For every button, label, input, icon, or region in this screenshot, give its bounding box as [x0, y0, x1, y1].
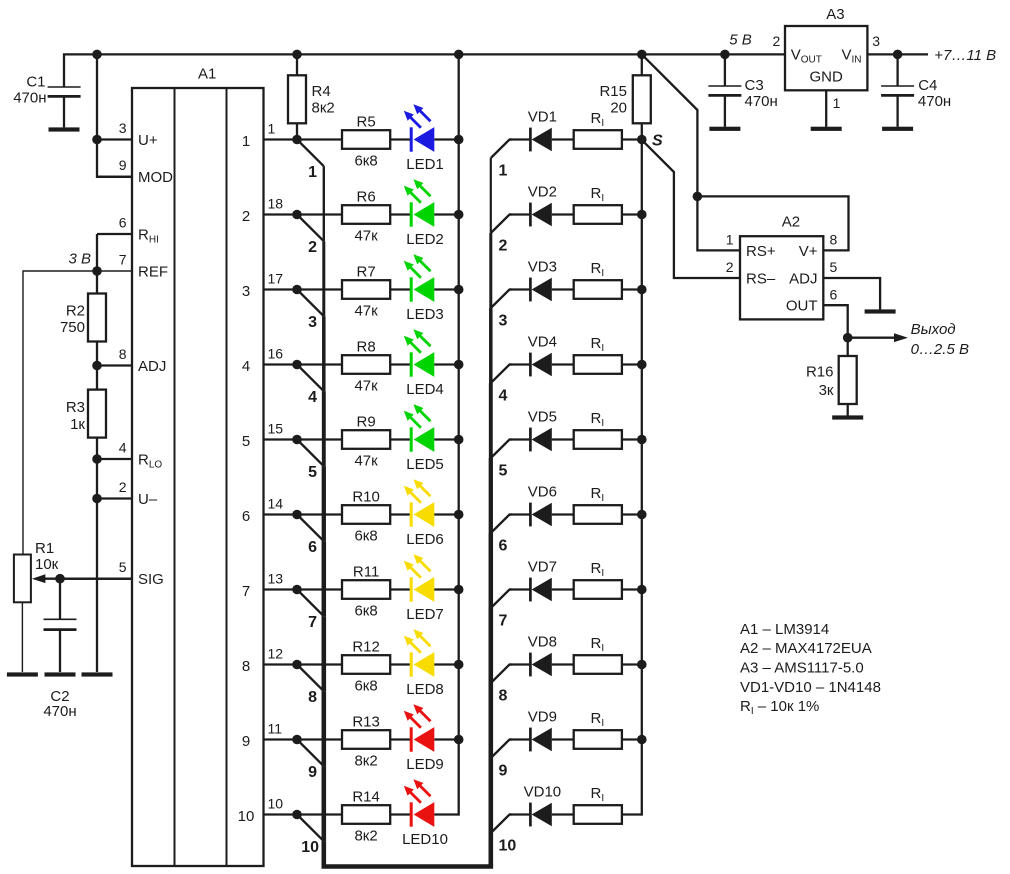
LED LED7 [404, 554, 444, 623]
capacitor C4 470н [881, 54, 951, 126]
wire A1 output pin 13 (comparator 7) to R11 [242, 571, 342, 600]
A1 pin 2 U– wire and labels [97, 479, 158, 508]
svg-text:2: 2 [726, 259, 734, 275]
wire diagonal loom to VD9 [491, 740, 512, 759]
LED LED8 [404, 629, 444, 698]
IC A1 LM3914 box [132, 65, 264, 866]
ground below U- net [82, 672, 113, 676]
svg-text:10: 10 [301, 839, 319, 856]
node top rail / LED bus [454, 50, 464, 60]
svg-text:6: 6 [830, 286, 838, 302]
node output 8 junction [292, 660, 302, 670]
ground below C4 [882, 127, 913, 131]
capacitor C3 470н [708, 54, 777, 126]
resistor R3 1к [66, 366, 106, 438]
LED LED1 [404, 104, 444, 173]
node ADJ junction [92, 361, 102, 371]
resistor R10 6к8 [342, 489, 390, 545]
svg-text:LED7: LED7 [406, 606, 444, 623]
svg-text:1к: 1к [70, 416, 85, 433]
wire diagonal loom to VD5 [491, 440, 512, 459]
svg-text:R13: R13 [352, 714, 380, 731]
svg-text:6: 6 [119, 214, 127, 230]
node summing bus row 6 [637, 510, 647, 520]
svg-text:REF: REF [138, 263, 168, 280]
svg-text:ADJ: ADJ [789, 270, 817, 287]
parts list text block [740, 621, 881, 717]
wire RHI down to REF node [96, 234, 98, 271]
wire LED9 to LED bus [434, 738, 458, 740]
node summing bus row 5 [637, 435, 647, 445]
node top rail / R4 [292, 50, 302, 60]
node output 3 junction [292, 285, 302, 295]
wire diagonal output 7 into left loom [297, 590, 324, 617]
resistor R11 6к8 [342, 564, 390, 620]
node LED bus row 6 [454, 510, 464, 520]
diode VD10 1N4148 [510, 783, 575, 826]
svg-text:3: 3 [308, 314, 317, 331]
wire top rail right of A3 to supply input [867, 53, 928, 55]
diode VD4 1N4148 [510, 333, 575, 376]
svg-text:47к: 47к [354, 227, 378, 244]
svg-text:7: 7 [242, 583, 250, 600]
svg-text:R2: R2 [66, 302, 85, 319]
svg-text:4: 4 [242, 358, 250, 375]
svg-text:R1: R1 [35, 540, 54, 557]
wire R13 to LED9 [390, 738, 411, 740]
resistor R9 47к [342, 414, 390, 470]
svg-text:8: 8 [499, 688, 508, 705]
wire A2 ADJ pin 5 to ground [823, 278, 880, 310]
diode VD6 1N4148 [510, 483, 575, 526]
resistor R6 47к [342, 189, 390, 245]
svg-text:8: 8 [830, 232, 838, 248]
svg-text:VD1-VD10 – 1N4148: VD1-VD10 – 1N4148 [740, 679, 881, 696]
svg-text:3к: 3к [819, 382, 834, 399]
wire LED10 to LED bus [434, 813, 458, 815]
svg-text:0…2.5 В: 0…2.5 В [911, 341, 969, 358]
A1 pin 8 ADJ wire and labels [97, 346, 166, 375]
node output 9 junction [292, 735, 302, 745]
svg-text:9: 9 [499, 763, 508, 780]
resistor R12 6к8 [342, 639, 390, 695]
arrow output Выход [848, 333, 908, 342]
svg-text:3 В: 3 В [68, 250, 91, 267]
wire RI row 10 to summing bus [622, 813, 642, 815]
svg-text:C4: C4 [918, 77, 937, 94]
wire R9 to LED5 [390, 438, 411, 440]
node top rail / U+ branch [92, 50, 102, 60]
wire SIG from wiper [60, 578, 132, 580]
svg-text:C1: C1 [26, 73, 45, 90]
svg-text:+7…11 В: +7…11 В [934, 47, 996, 64]
node RS+/V+ branch [693, 192, 703, 202]
svg-text:7: 7 [308, 614, 317, 631]
svg-text:VD4: VD4 [528, 333, 557, 350]
resistor R8 47к [342, 339, 390, 395]
LED LED10 [402, 779, 448, 848]
wire LED7 to LED bus [434, 588, 458, 590]
wire diagonal loom to VD4 [491, 365, 512, 384]
svg-text:10: 10 [268, 796, 284, 812]
svg-text:47к: 47к [354, 452, 378, 469]
wire diagonal loom to VD7 [491, 590, 512, 609]
svg-text:9: 9 [119, 157, 127, 173]
wire left loom vertical (bundled outputs) [323, 166, 325, 866]
node LED bus row 1 [454, 135, 464, 145]
wire diagonal output 10 into left loom [297, 815, 324, 842]
node output 1 junction [292, 135, 302, 145]
node S [637, 135, 647, 145]
node summing bus row 8 [637, 660, 647, 670]
svg-text:R9: R9 [357, 414, 376, 431]
resistor R14 8к2 [342, 789, 390, 845]
svg-text:10к: 10к [35, 556, 59, 573]
wire diagonal output 9 into left loom [297, 740, 324, 767]
node output 4 junction [292, 360, 302, 370]
svg-text:C3: C3 [745, 77, 764, 94]
LED LED6 [404, 479, 444, 548]
wire loom bottom horizontal [322, 864, 494, 869]
svg-text:10: 10 [238, 808, 255, 825]
diode VD9 1N4148 [510, 708, 575, 751]
wire R2 to ADJ [96, 342, 98, 366]
wire RI row 4 to summing bus [622, 363, 642, 365]
diode VD3 1N4148 [510, 258, 575, 301]
svg-text:12: 12 [268, 646, 284, 662]
diode VD2 1N4148 [510, 183, 575, 226]
wire A1 output pin 14 (comparator 6) to R10 [242, 496, 342, 525]
node U+ pin junction [92, 135, 102, 145]
node top rail / C3 and A3 VOUT [720, 50, 730, 60]
resistor RI (row 8) 10к [574, 635, 622, 674]
resistor R13 8к2 [342, 714, 390, 770]
wire diagonal output 2 into left loom [297, 215, 324, 242]
wire diagonal loom to VD1 [491, 140, 512, 159]
svg-text:R3: R3 [66, 399, 85, 416]
wire R11 to LED7 [390, 588, 411, 590]
resistor RI (row 5) 10к [574, 410, 622, 449]
IC A2 MAX4172EUA box [726, 213, 838, 319]
ground below C2 [45, 672, 76, 676]
A1 pin 9 MOD wire and labels [97, 157, 173, 186]
svg-text:2: 2 [242, 208, 250, 225]
svg-text:20: 20 [610, 100, 627, 117]
wire LED anode bus vertical [458, 54, 460, 815]
capacitor C2 470н [43, 579, 76, 720]
wire A1 output pin 17 (comparator 3) to R7 [242, 271, 342, 300]
wire A1 output pin 11 (comparator 9) to R13 [242, 721, 342, 750]
wire LED3 to LED bus [434, 288, 458, 290]
LED LED5 [404, 404, 444, 473]
diode VD8 1N4148 [510, 633, 575, 676]
svg-text:6к8: 6к8 [354, 602, 377, 619]
wire LED5 to LED bus [434, 438, 458, 440]
node summing bus row 7 [637, 585, 647, 595]
svg-text:LED6: LED6 [406, 531, 444, 548]
svg-text:VD3: VD3 [528, 258, 557, 275]
svg-text:V+: V+ [799, 243, 818, 260]
wire RI row 3 to summing bus [622, 288, 642, 290]
resistor RI (row 4) 10к [574, 335, 622, 374]
svg-text:U–: U– [138, 491, 158, 508]
wire diagonal output 5 into left loom [297, 440, 324, 467]
svg-text:A1: A1 [198, 65, 216, 82]
svg-text:11: 11 [268, 721, 283, 737]
potentiometer R1 10к [14, 540, 60, 672]
svg-text:470н: 470н [43, 703, 76, 720]
svg-text:R14: R14 [352, 789, 380, 806]
svg-text:S: S [652, 133, 663, 150]
wire diagonal output 4 into left loom [297, 365, 324, 392]
svg-text:5: 5 [119, 559, 127, 575]
svg-text:47к: 47к [354, 377, 378, 394]
wire diagonal loom to VD8 [491, 665, 512, 684]
svg-text:5 В: 5 В [729, 31, 752, 48]
wire R8 to LED4 [390, 363, 411, 365]
node top rail / C4 and A3 VIN [893, 50, 903, 60]
svg-text:4: 4 [119, 439, 127, 455]
svg-text:14: 14 [268, 496, 284, 512]
node U- junction [92, 494, 102, 504]
wire LED2 to LED bus [434, 213, 458, 215]
wire RI row 2 to summing bus [622, 213, 642, 215]
node RLO junction [92, 454, 102, 464]
svg-text:A1 – LM3914: A1 – LM3914 [740, 621, 829, 638]
ground below C3 [709, 127, 740, 131]
svg-text:U+: U+ [138, 132, 158, 149]
wire branch to A2 pin 1 RS+ [697, 196, 740, 250]
node REF junction [92, 266, 102, 276]
svg-text:4: 4 [499, 388, 508, 405]
svg-text:VD7: VD7 [528, 558, 557, 575]
resistor R4 8к2 [288, 54, 335, 139]
svg-text:ADJ: ADJ [138, 358, 166, 375]
svg-text:17: 17 [268, 271, 284, 287]
node summing bus row 3 [637, 285, 647, 295]
wire R14 to LED10 [390, 813, 411, 815]
svg-text:VD2: VD2 [528, 183, 557, 200]
svg-text:LED5: LED5 [406, 456, 444, 473]
resistor RI (row 2) 10к [574, 185, 622, 224]
wire S node to A2 pin 2 RS- (diagonal) [642, 140, 740, 278]
svg-text:9: 9 [308, 764, 317, 781]
node LED bus row 9 [454, 735, 464, 745]
svg-text:1: 1 [268, 121, 276, 137]
wire U+/MOD branch from rail [97, 54, 132, 176]
svg-text:1: 1 [833, 95, 841, 111]
svg-text:R15: R15 [599, 83, 627, 100]
wire branch to A2 pin 8 V+ [697, 196, 848, 250]
node LED bus row 4 [454, 360, 464, 370]
ground below R1 [7, 672, 38, 676]
svg-text:470н: 470н [745, 93, 778, 110]
resistor RI (row 6) 10к [574, 485, 622, 524]
wire diagonal loom to VD3 [491, 290, 512, 309]
svg-text:8к2: 8к2 [354, 752, 377, 769]
wire RI row 5 to summing bus [622, 438, 642, 440]
svg-text:SIG: SIG [138, 571, 164, 588]
svg-text:8: 8 [242, 658, 250, 675]
svg-text:RS+: RS+ [746, 243, 776, 260]
wire A2 OUT pin 6 to R16 [823, 305, 847, 356]
svg-text:LED8: LED8 [406, 681, 444, 698]
svg-text:R16: R16 [806, 363, 834, 380]
svg-text:LED3: LED3 [406, 306, 444, 323]
LED LED4 [404, 329, 444, 398]
svg-text:15: 15 [268, 421, 284, 437]
svg-text:VD9: VD9 [528, 708, 557, 725]
svg-text:3: 3 [872, 33, 880, 49]
svg-text:8к2: 8к2 [354, 827, 377, 844]
node output 2 junction [292, 210, 302, 220]
LED LED3 [404, 254, 444, 323]
svg-text:R12: R12 [352, 639, 380, 656]
node LED bus row 8 [454, 660, 464, 670]
wire summing bus S vertical [641, 140, 643, 816]
svg-text:R11: R11 [353, 564, 379, 581]
node LED bus row 3 [454, 285, 464, 295]
svg-text:R10: R10 [352, 489, 380, 506]
node LED bus row 2 [454, 210, 464, 220]
resistor R15 20 [599, 54, 650, 139]
node summing bus row 4 [637, 360, 647, 370]
A1 pin 3 U+ wire and labels [97, 120, 158, 149]
svg-text:5: 5 [499, 463, 508, 480]
svg-text:VD10: VD10 [524, 783, 562, 800]
wire RI row 8 to summing bus [622, 663, 642, 665]
wire right loom vertical (bundled outputs) [490, 158, 492, 867]
wire top +5V power rail [64, 54, 785, 87]
svg-text:6: 6 [308, 539, 317, 556]
LED LED9 [404, 704, 444, 773]
svg-text:R8: R8 [357, 339, 376, 356]
node output 6 junction [292, 510, 302, 520]
svg-text:8к2: 8к2 [312, 100, 335, 117]
svg-text:6к8: 6к8 [354, 527, 377, 544]
diode VD5 1N4148 [510, 408, 575, 451]
wire LED1 to LED bus [434, 138, 458, 140]
svg-text:R7: R7 [357, 264, 376, 281]
svg-text:6к8: 6к8 [354, 677, 377, 694]
resistor RI (row 7) 10к [574, 560, 622, 599]
wire R7 to LED3 [390, 288, 411, 290]
wire RI row 1 to summing bus [622, 138, 642, 140]
svg-text:R4: R4 [312, 83, 331, 100]
IC A3 AMS1117-5.0 box [773, 6, 881, 111]
svg-text:A3: A3 [826, 6, 844, 23]
wire diagonal loom to VD10 [491, 815, 512, 834]
svg-text:7: 7 [499, 613, 508, 630]
node LED bus row 5 [454, 435, 464, 445]
wire A3 GND pin 1 to ground [825, 90, 827, 127]
diode VD7 1N4148 [510, 558, 575, 601]
svg-text:VD5: VD5 [528, 408, 557, 425]
svg-text:VD8: VD8 [528, 633, 557, 650]
svg-text:3: 3 [242, 283, 250, 300]
wire A1 output pin 18 (comparator 2) to R6 [242, 196, 342, 225]
A1 pin 6 RHI wire and labels [97, 214, 159, 245]
svg-text:LED10: LED10 [402, 831, 448, 848]
svg-text:5: 5 [308, 464, 317, 481]
node LED bus row 7 [454, 585, 464, 595]
diode VD1 1N4148 [510, 108, 575, 151]
wire LED4 to LED bus [434, 363, 458, 365]
ground below A2 ADJ [865, 309, 896, 313]
wire LED8 to LED bus [434, 663, 458, 665]
svg-text:R5: R5 [357, 114, 376, 131]
resistor RI (row 10) 10к [574, 785, 622, 824]
svg-text:MOD: MOD [138, 169, 173, 186]
svg-text:470н: 470н [918, 93, 951, 110]
svg-text:1: 1 [242, 133, 250, 150]
wire diagonal output 3 into left loom [297, 290, 324, 317]
resistor R5 6к8 [342, 114, 390, 170]
svg-text:LED4: LED4 [406, 381, 444, 398]
wire R12 to LED8 [390, 663, 411, 665]
svg-text:2: 2 [773, 33, 781, 49]
wire RI row 6 to summing bus [622, 513, 642, 515]
wire REF net to left (3 V reference) [23, 271, 132, 555]
svg-text:GND: GND [810, 69, 844, 86]
svg-text:1: 1 [499, 163, 508, 180]
wire diagonal output 8 into left loom [297, 665, 324, 692]
wire RI row 7 to summing bus [622, 588, 642, 590]
svg-text:LED2: LED2 [406, 231, 444, 248]
svg-text:6: 6 [242, 508, 250, 525]
svg-text:7: 7 [119, 251, 127, 267]
svg-text:16: 16 [268, 346, 284, 362]
svg-text:LED9: LED9 [406, 756, 444, 773]
A1 pin 7 REF wire and labels [119, 251, 168, 280]
svg-text:2: 2 [308, 239, 317, 256]
svg-text:470н: 470н [13, 90, 46, 107]
capacitor C1 470н [13, 73, 80, 127]
svg-text:A2 – MAX4172EUA: A2 – MAX4172EUA [740, 640, 872, 657]
ground below A3 GND [811, 127, 842, 131]
svg-text:1: 1 [308, 164, 317, 181]
node OUT junction [843, 333, 853, 343]
svg-text:9: 9 [242, 733, 250, 750]
resistor R7 47к [342, 264, 390, 320]
wire diagonal loom to VD2 [491, 215, 512, 234]
node output 5 junction [292, 435, 302, 445]
svg-text:10: 10 [499, 838, 517, 855]
svg-text:VD1: VD1 [528, 108, 557, 125]
wire RI row 9 to summing bus [622, 738, 642, 740]
ground below C1 [49, 127, 80, 131]
wire R10 to LED6 [390, 513, 411, 515]
label output Выход 0...2.5 В [911, 321, 969, 358]
node summing bus row 2 [637, 210, 647, 220]
wire A1 output pin 16 (comparator 4) to R8 [242, 346, 342, 375]
resistor RI (row 3) 10к [574, 260, 622, 299]
resistor R2 750 [60, 271, 106, 342]
svg-text:4: 4 [308, 389, 317, 406]
svg-text:LED1: LED1 [406, 156, 444, 173]
LED LED2 [404, 179, 444, 248]
svg-text:Выход: Выход [911, 321, 956, 338]
svg-text:VD6: VD6 [528, 483, 557, 500]
svg-text:47к: 47к [354, 302, 378, 319]
wire A1 output pin 10 (comparator 10) to R14 [238, 796, 342, 825]
wire LED6 to LED bus [434, 513, 458, 515]
node summing bus row 9 [637, 735, 647, 745]
wire R5 to LED1 [390, 138, 411, 140]
svg-text:750: 750 [60, 319, 85, 336]
svg-text:18: 18 [268, 196, 284, 212]
resistor RI (row 1) 10к [574, 110, 622, 149]
